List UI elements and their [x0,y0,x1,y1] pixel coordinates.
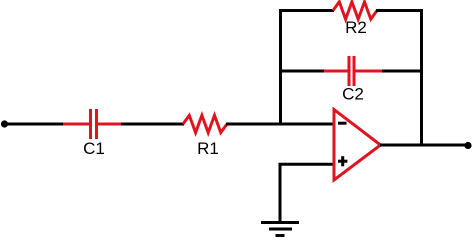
wire top branch R2 to right corner [376,9,423,12]
capacitor C1 [63,109,121,139]
wire right feedback vertical [420,9,423,147]
wire output [380,144,468,147]
wire top branch left to R2 [279,9,334,12]
svg-text:C1: C1 [83,139,105,158]
svg-text:R1: R1 [197,139,219,158]
op-amp U1 [334,110,381,181]
node output terminal [464,142,471,149]
capacitor C2 [324,56,384,86]
wire ground drop [279,164,282,222]
svg-text:R2: R2 [345,18,367,37]
pin plus non-inverting input marker [338,156,347,166]
wire C1 to R1 [121,123,184,126]
wire input to C1 [5,123,65,126]
wire non-inverting input [279,163,336,166]
wire feedback vertical riser at node A [279,9,282,124]
wire C2 branch right [382,70,423,73]
resistor R1 [183,115,227,132]
ground [261,223,299,236]
pin minus inverting input marker [338,122,347,125]
svg-text:C2: C2 [342,85,364,104]
node input terminal [1,120,8,127]
resistor R2 [333,2,377,19]
wire R1 to op-amp inverting input [226,123,335,126]
wire C2 branch left [279,70,326,73]
